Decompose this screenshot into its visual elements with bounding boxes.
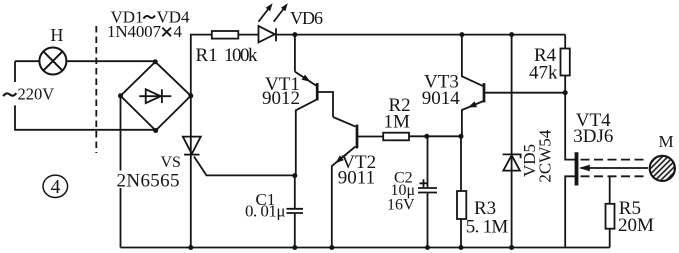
wire: R1 to VD6 (238, 34, 258, 36)
node: R4 bottom / VT3 base / VT4 drain junction (563, 90, 568, 95)
label ~220V (3, 93, 16, 96)
capacitor C1 (287, 176, 304, 248)
node: VD5 on bottom rail (509, 245, 514, 250)
svg-text:R1: R1 (196, 45, 218, 66)
lamp H (39, 48, 66, 75)
zener diode VD5 (503, 35, 521, 248)
wire: bridge left corner down to bottom rail (gap at 2N6565 label) (120, 96, 122, 248)
wire: left vertical below 220V text down and right to bridge bottom corner (15, 105, 156, 129)
node: bridge right corner (188, 93, 193, 98)
svg-text:2CW54: 2CW54 (536, 129, 555, 182)
node: gate/C1 junction (292, 173, 297, 178)
svg-text:9011: 9011 (338, 168, 375, 189)
node: bridge left corner (118, 93, 123, 98)
wire: bridge right corner up to top rail (191, 35, 212, 96)
node: C2 top junction (424, 134, 429, 139)
wire: top rail from VD6 to R4 (276, 34, 565, 36)
transistor VT1 (295, 35, 333, 176)
thyristor VS (183, 96, 295, 248)
node: bridge bottom corner (153, 128, 158, 133)
FET VT4 (565, 93, 648, 248)
resistor R5 (606, 176, 615, 247)
svg-text:VD6: VD6 (290, 8, 323, 28)
svg-text:0. 01μ: 0. 01μ (245, 202, 286, 221)
svg-text:M: M (659, 132, 674, 151)
resistor R3 (457, 136, 466, 247)
circled 4 (43, 175, 68, 198)
node: bridge top corner (153, 59, 158, 64)
svg-text:47k: 47k (529, 63, 558, 84)
node: C1 on bottom rail (292, 245, 297, 250)
wire: R2 to C2/VT3 emitter junction (409, 135, 461, 137)
wire: bottom rail (121, 247, 610, 249)
svg-text:1N4007: 1N4007 (107, 22, 162, 41)
dashed separator line (95, 26, 97, 153)
svg-text:3DJ6: 3DJ6 (573, 126, 613, 147)
node: C2 on bottom rail (425, 245, 430, 250)
svg-text:VS: VS (161, 154, 181, 171)
node: R3 on bottom rail (459, 245, 464, 250)
wire: AC live from source to lamp (15, 60, 39, 62)
svg-text:20M: 20M (618, 215, 654, 236)
transistor VT3 (462, 35, 565, 137)
motor M (hatched probe) (650, 156, 675, 181)
svg-text:220V: 220V (18, 84, 55, 103)
svg-text:5. 1M: 5. 1M (466, 217, 509, 238)
resistor R4 (561, 35, 570, 93)
svg-text:H: H (50, 25, 63, 45)
svg-text:4: 4 (51, 177, 61, 198)
svg-text:9012: 9012 (262, 88, 300, 109)
node: VS cathode on bottom rail (188, 245, 193, 250)
resistor R1 (212, 31, 239, 39)
bridge rectifier VD1~VD4 (121, 62, 191, 131)
transistor VT2 (332, 117, 383, 248)
node: VD6 output junction (292, 32, 297, 37)
svg-text:4: 4 (174, 22, 183, 41)
svg-text:1M: 1M (384, 112, 411, 133)
svg-text:16V: 16V (387, 197, 415, 214)
node: VT3 collector junction on top rail (459, 32, 464, 37)
svg-text:100k: 100k (224, 45, 258, 66)
wire: lamp to bridge top corner (66, 60, 155, 62)
resistor R2 (383, 133, 409, 141)
svg-text:9014: 9014 (422, 88, 461, 109)
svg-text:2N6565: 2N6565 (117, 171, 180, 192)
node: VD5 junction on top rail (509, 32, 514, 37)
node: VT2 emitter on bottom rail (329, 245, 334, 250)
capacitor C2 (418, 136, 437, 247)
wire: left vertical above 220V text (14, 61, 16, 82)
LED VD6 (259, 3, 288, 42)
node: VT3 emitter / R3 junction (459, 134, 464, 139)
